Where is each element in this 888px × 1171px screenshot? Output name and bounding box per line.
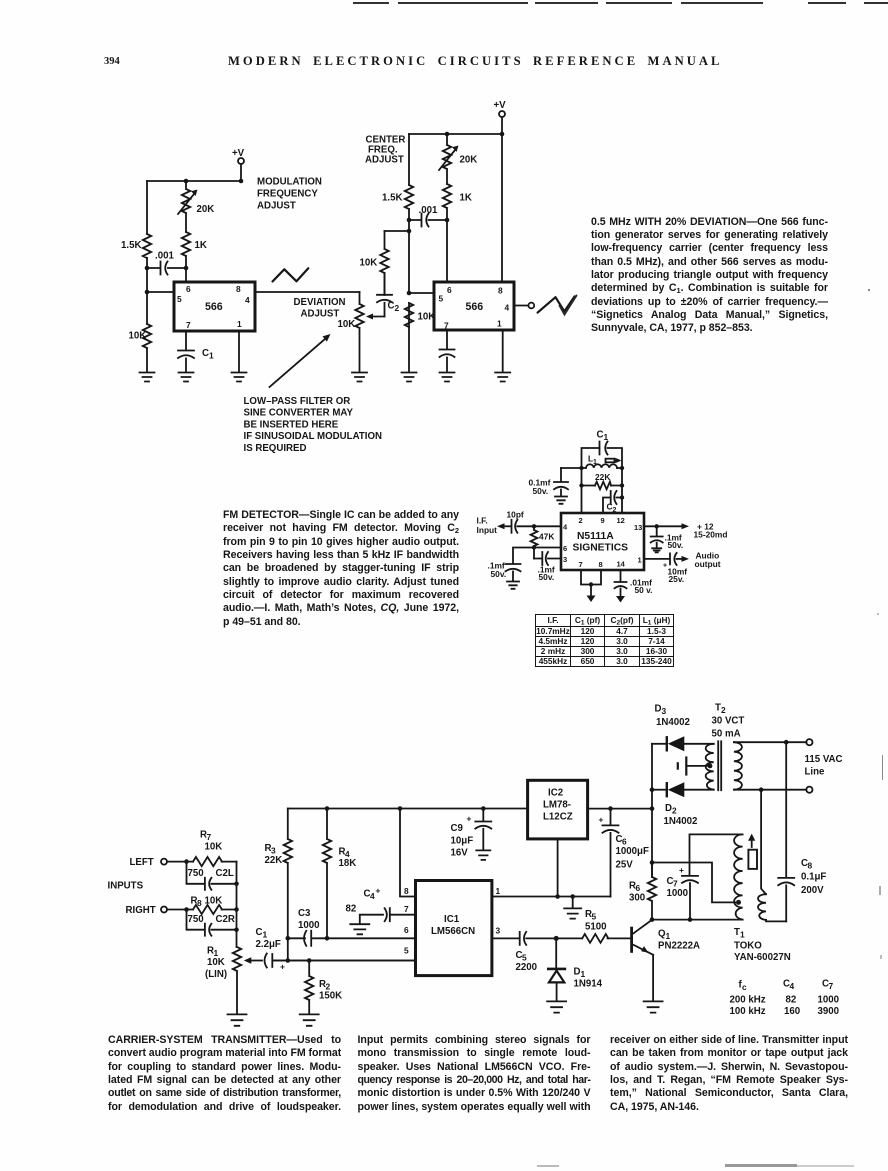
svg-text:5: 5 bbox=[439, 294, 444, 304]
svg-text:7: 7 bbox=[186, 320, 191, 330]
svg-text:115 VAC: 115 VAC bbox=[805, 754, 843, 765]
resistor 10K (modulator feed) bbox=[360, 231, 389, 295]
node 10K feed bbox=[407, 229, 412, 234]
svg-text:4: 4 bbox=[505, 303, 510, 313]
ground (common) bbox=[564, 897, 581, 919]
resistor 10K lower left bbox=[129, 324, 152, 348]
svg-text:50 mA: 50 mA bbox=[712, 729, 741, 740]
wire summing bus bbox=[236, 862, 238, 947]
svg-text:50 v.: 50 v. bbox=[635, 585, 653, 595]
capacitor pin 7 (right 566) bbox=[440, 330, 455, 371]
wire tap run to T1 bbox=[652, 863, 739, 903]
svg-text:1: 1 bbox=[209, 351, 214, 361]
ground (C1) bbox=[179, 373, 194, 382]
caption col 3 bbox=[610, 1034, 848, 1114]
label center freq adjust bbox=[365, 135, 405, 166]
svg-text:1N4002: 1N4002 bbox=[656, 717, 690, 728]
svg-text:7: 7 bbox=[829, 981, 834, 991]
wiper arrow R1 bbox=[244, 957, 262, 963]
wire pin 8 drop bbox=[501, 134, 503, 282]
svg-text:18K: 18K bbox=[339, 858, 357, 869]
node rail pin8 bbox=[398, 806, 403, 811]
node .001 left bbox=[407, 218, 412, 223]
svg-text:L12CZ: L12CZ bbox=[543, 812, 573, 823]
label fc table bbox=[730, 979, 840, 1018]
svg-text:50v.: 50v. bbox=[539, 572, 555, 582]
component value table for FM detector bbox=[535, 614, 674, 668]
+V supply terminal (right 566) bbox=[494, 100, 507, 134]
node pin5 tie bbox=[145, 290, 150, 295]
ground (D1) bbox=[547, 1001, 566, 1012]
diode D3 1N4002 bbox=[652, 704, 714, 752]
label T2 30 VCT 50 mA bbox=[712, 703, 745, 740]
ground (R2) bbox=[300, 1014, 319, 1025]
svg-text:0.1μF: 0.1μF bbox=[801, 872, 826, 883]
resistor R2 150K bbox=[305, 961, 342, 1014]
ground arrow (pins 7-8) bbox=[587, 585, 596, 603]
wire right input bbox=[167, 909, 193, 911]
svg-text:6: 6 bbox=[447, 285, 452, 295]
label 115 VAC Line bbox=[805, 754, 843, 778]
wire pin 4 output bbox=[255, 291, 360, 293]
+12 supply arrow bbox=[644, 522, 727, 540]
IF input arrow bbox=[477, 516, 512, 536]
node ground tie bbox=[570, 894, 575, 899]
caption col 2 bbox=[358, 1034, 591, 1114]
capacitor C3 1000 bbox=[288, 908, 416, 946]
capacitor .001 (left 566) bbox=[147, 251, 186, 275]
node left input bbox=[184, 859, 189, 864]
ground (C4) bbox=[350, 924, 369, 934]
page number bbox=[104, 56, 120, 67]
node top rail at 20K bbox=[445, 132, 450, 137]
resistor 10K (right 566) bbox=[405, 303, 435, 327]
resistor R8 10K bbox=[191, 896, 237, 915]
svg-text:200 kHz: 200 kHz bbox=[730, 995, 766, 1006]
svg-text:47K: 47K bbox=[539, 532, 554, 542]
transistor Q1 PN2222A bbox=[632, 920, 700, 1001]
node IC2 rail at riser bbox=[650, 806, 655, 811]
capacitor .1mf input bypass bbox=[488, 548, 535, 582]
ground (right branch) bbox=[402, 373, 417, 382]
node IC2 common bbox=[555, 894, 560, 899]
wire pin 1 right down bbox=[502, 330, 504, 371]
ground (+12 bypass) bbox=[652, 548, 661, 552]
node pins 7-8 bbox=[589, 582, 593, 586]
svg-text:1: 1 bbox=[496, 886, 501, 896]
svg-text:+: + bbox=[467, 814, 472, 824]
resistor R6 300 bbox=[629, 863, 656, 920]
node 47K bottom bbox=[532, 545, 536, 549]
svg-text:D: D bbox=[665, 803, 672, 814]
svg-text:DEVIATION: DEVIATION bbox=[294, 297, 346, 308]
wire left branch right 566 bbox=[408, 134, 410, 371]
svg-text:1: 1 bbox=[604, 432, 609, 442]
svg-text:10K: 10K bbox=[129, 331, 147, 342]
svg-text:3: 3 bbox=[271, 846, 276, 856]
resistor 47K bbox=[531, 526, 555, 558]
capacitor C2 (coupling) bbox=[377, 273, 400, 317]
svg-text:.001: .001 bbox=[419, 205, 438, 216]
resistor R5 5100 bbox=[556, 909, 630, 943]
svg-text:10K: 10K bbox=[360, 258, 378, 269]
svg-text:1: 1 bbox=[740, 930, 745, 940]
svg-text:.001: .001 bbox=[155, 251, 174, 262]
capacitor 0.1mf 50v (tank bypass) bbox=[529, 468, 569, 496]
ground (pin 7 right) bbox=[440, 373, 455, 382]
svg-text:30 VCT: 30 VCT bbox=[712, 716, 745, 727]
wire pin 1 down bbox=[238, 331, 240, 372]
label modulation frequency adjust bbox=[257, 177, 322, 212]
svg-text:IC1: IC1 bbox=[444, 914, 460, 925]
wire left input bbox=[167, 861, 193, 863]
IC N5111A Signetics bbox=[561, 513, 644, 570]
node T1 secondary tie bbox=[759, 787, 764, 792]
svg-text:1: 1 bbox=[237, 319, 242, 329]
svg-text:22K: 22K bbox=[595, 472, 610, 482]
resistor R4 18K bbox=[323, 809, 356, 939]
svg-text:LM78-: LM78- bbox=[543, 800, 571, 811]
ground (Q1 emitter) bbox=[644, 1001, 663, 1012]
node pin5 tie right bbox=[407, 291, 412, 296]
resistor 1.5K (right 566) bbox=[382, 185, 413, 209]
previous page bleed marks top bbox=[353, 2, 389, 4]
svg-text:10μF: 10μF bbox=[451, 836, 474, 847]
svg-text:SINE CONVERTER MAY: SINE CONVERTER MAY bbox=[244, 408, 354, 419]
svg-text:25V: 25V bbox=[616, 860, 634, 871]
svg-text:2: 2 bbox=[579, 516, 583, 525]
node collector bbox=[650, 917, 655, 922]
node rail C9 bbox=[481, 806, 486, 811]
wire emitter bus to T1 bbox=[652, 919, 743, 921]
wire left branch bbox=[146, 181, 148, 372]
svg-text:LOW–PASS FILTER OR: LOW–PASS FILTER OR bbox=[244, 396, 351, 407]
svg-text:150K: 150K bbox=[319, 991, 342, 1002]
resistor R7 10K bbox=[193, 830, 237, 867]
svg-text:6: 6 bbox=[404, 925, 409, 935]
node R3 at C3 wire bbox=[286, 936, 291, 941]
svg-text:3: 3 bbox=[662, 706, 667, 716]
caption: 0.5 MHz with 20% deviation bbox=[591, 216, 828, 336]
L1 tuning slug arrow bbox=[606, 458, 622, 463]
op-amp 566 IC (left) bbox=[174, 282, 255, 331]
wire IC2 ground stub bbox=[557, 839, 559, 897]
output terminal right 566 bbox=[514, 303, 534, 309]
terminal 115VAC top bbox=[806, 739, 812, 745]
node C5-R5-D1 bbox=[554, 936, 559, 941]
node cap right bbox=[184, 266, 189, 271]
diode D2 1N4002 bbox=[652, 782, 714, 827]
node T1 primary tap bbox=[736, 900, 741, 905]
svg-text:1: 1 bbox=[638, 556, 642, 565]
node R8 right bbox=[234, 907, 239, 912]
transformer T2 secondary winding bbox=[734, 742, 742, 790]
svg-text:2: 2 bbox=[721, 705, 726, 715]
svg-text:5: 5 bbox=[177, 294, 182, 304]
ground (R1) bbox=[228, 1014, 247, 1025]
tank loop wires bbox=[582, 448, 623, 513]
svg-text:+V: +V bbox=[494, 100, 507, 111]
svg-text:1N4002: 1N4002 bbox=[664, 816, 698, 827]
svg-text:22K: 22K bbox=[265, 855, 283, 866]
svg-text:50v.: 50v. bbox=[491, 569, 507, 579]
node R6 top bbox=[650, 860, 655, 865]
label audio output bbox=[695, 551, 721, 570]
svg-text:7: 7 bbox=[579, 560, 583, 569]
capacitor C8 0.1uF 200V bbox=[778, 742, 826, 921]
transformer T2 core bbox=[718, 741, 721, 790]
capacitor .1mf 50v (+12 bypass) bbox=[651, 526, 683, 550]
svg-text:PN2222A: PN2222A bbox=[658, 941, 700, 952]
svg-text:D: D bbox=[574, 967, 581, 978]
wire 115VAC top bbox=[734, 741, 807, 743]
svg-text:LM566CN: LM566CN bbox=[431, 926, 475, 937]
svg-text:7: 7 bbox=[444, 321, 449, 331]
svg-text:10K: 10K bbox=[338, 319, 356, 330]
resistor 1K bbox=[182, 232, 207, 282]
label deviation adjust bbox=[294, 297, 346, 320]
node D2 tap bbox=[650, 787, 655, 792]
node 47K top bbox=[532, 524, 536, 528]
svg-text:+: + bbox=[679, 865, 684, 875]
svg-text:8: 8 bbox=[498, 286, 503, 296]
ground arrow (pin 14) bbox=[616, 596, 625, 603]
svg-text:82: 82 bbox=[786, 995, 797, 1006]
resistor R3 22K bbox=[265, 809, 293, 961]
caption: carrier-system transmitter col 1 bbox=[108, 1034, 341, 1114]
svg-text:50v.: 50v. bbox=[533, 486, 549, 496]
svg-text:2: 2 bbox=[395, 303, 400, 313]
svg-text:12: 12 bbox=[617, 516, 625, 525]
op-amp 566 IC (right) bbox=[434, 282, 514, 330]
node C8 top bbox=[784, 740, 789, 745]
node R2 top tie bbox=[307, 958, 312, 963]
svg-text:5: 5 bbox=[522, 953, 527, 963]
svg-text:6: 6 bbox=[186, 284, 191, 294]
transformer T1 primary winding bbox=[734, 834, 743, 919]
svg-text:1.5K: 1.5K bbox=[121, 240, 141, 251]
svg-text:C: C bbox=[597, 430, 604, 441]
diode D1 1N914 bbox=[548, 938, 602, 1001]
label low-pass filter note bbox=[244, 396, 383, 454]
svg-text:5: 5 bbox=[592, 912, 597, 922]
wire 10K feed to node bbox=[385, 230, 410, 232]
svg-text:16V: 16V bbox=[451, 848, 469, 859]
transformer T1 secondary winding bbox=[758, 790, 786, 922]
svg-text:1: 1 bbox=[581, 969, 586, 979]
svg-text:100 kHz: 100 kHz bbox=[730, 1006, 766, 1017]
inductor L1 bbox=[561, 454, 622, 469]
svg-text:ADJUST: ADJUST bbox=[301, 309, 340, 320]
capacitor .1mf to pin 3 bbox=[534, 552, 561, 582]
svg-text:YAN-60027N: YAN-60027N bbox=[734, 952, 791, 963]
svg-text:1.5K: 1.5K bbox=[382, 193, 402, 204]
svg-text:566: 566 bbox=[205, 301, 223, 313]
capacitor .01mf 50v (pin 14) bbox=[615, 570, 653, 596]
svg-text:2.2μF: 2.2μF bbox=[256, 939, 281, 950]
svg-text:D: D bbox=[655, 704, 662, 715]
svg-text:4: 4 bbox=[563, 523, 568, 532]
svg-text:8: 8 bbox=[197, 898, 202, 908]
potentiometer R1 10K LIN bbox=[205, 946, 241, 1014]
node C2L right bbox=[234, 882, 239, 887]
node junction top rail bbox=[184, 179, 189, 184]
svg-text:25v.: 25v. bbox=[669, 574, 685, 584]
wiper arrow from C2 bbox=[366, 314, 385, 320]
svg-text:1: 1 bbox=[263, 930, 268, 940]
svg-text:1N914: 1N914 bbox=[574, 979, 603, 990]
wire main riser bbox=[651, 744, 653, 877]
svg-text:10pf: 10pf bbox=[507, 510, 524, 520]
wire pin 5 stub right bbox=[409, 292, 434, 294]
svg-text:1000: 1000 bbox=[818, 995, 840, 1006]
svg-text:ADJUST: ADJUST bbox=[365, 155, 404, 166]
triangle wave symbol 2 bbox=[538, 296, 575, 312]
svg-text:BE INSERTED HERE: BE INSERTED HERE bbox=[244, 419, 339, 430]
T1 tuning slug bbox=[748, 834, 757, 869]
capacitor C1 (left 566 pin 7) bbox=[178, 331, 214, 372]
svg-text:+: + bbox=[376, 886, 381, 896]
svg-text:1000: 1000 bbox=[298, 920, 320, 931]
triangle wave symbol 1 bbox=[273, 268, 309, 281]
svg-text:10K: 10K bbox=[207, 957, 225, 968]
capacitor C5 2200 (pin 3) bbox=[492, 932, 556, 973]
capacitor C7 1000 bbox=[667, 865, 699, 920]
capacitor C4 82 (pin 7) bbox=[346, 886, 416, 924]
node R4 at C3 wire bbox=[325, 936, 330, 941]
svg-text:10K: 10K bbox=[205, 842, 223, 853]
resistor 1.5K (left 566) bbox=[121, 234, 151, 258]
svg-text:1: 1 bbox=[497, 319, 502, 329]
svg-text:15-20md: 15-20md bbox=[694, 530, 728, 540]
svg-text:14: 14 bbox=[617, 560, 626, 569]
svg-text:20K: 20K bbox=[197, 204, 215, 215]
wire pin 1 to rail bbox=[492, 896, 611, 898]
svg-text:(LIN): (LIN) bbox=[205, 969, 227, 980]
potentiometer 20K center freq bbox=[439, 134, 477, 184]
svg-text:+: + bbox=[663, 563, 667, 570]
transformer T2 primary winding bbox=[706, 744, 714, 790]
svg-text:FREQUENCY: FREQUENCY bbox=[257, 189, 318, 200]
svg-text:1K: 1K bbox=[460, 193, 472, 204]
svg-text:7: 7 bbox=[207, 832, 212, 842]
resistor 1K (right 566) bbox=[443, 184, 472, 282]
svg-text:160: 160 bbox=[784, 1006, 800, 1017]
node C7 bottom bbox=[688, 917, 693, 922]
node right input bbox=[184, 907, 189, 912]
svg-text:N5111A: N5111A bbox=[577, 531, 614, 542]
svg-text:output: output bbox=[695, 559, 721, 569]
svg-text:9: 9 bbox=[601, 516, 605, 525]
svg-text:1K: 1K bbox=[195, 240, 207, 251]
capacitor C9 10uF 16V bbox=[451, 809, 492, 859]
svg-text:I.F.: I.F. bbox=[477, 516, 488, 526]
node C2 right bbox=[620, 495, 624, 499]
svg-text:566: 566 bbox=[466, 301, 484, 313]
resistor 22K bbox=[582, 472, 623, 489]
svg-text:5100: 5100 bbox=[585, 922, 607, 933]
svg-text:1000: 1000 bbox=[667, 888, 689, 899]
wire IC2 input rail bbox=[588, 808, 652, 810]
wire pin 6 stub bbox=[534, 547, 561, 549]
capacitor C2 (detector) bbox=[603, 491, 622, 514]
svg-text:C: C bbox=[202, 348, 209, 359]
svg-text:MODULATION: MODULATION bbox=[257, 177, 322, 188]
ground (pin 1) bbox=[232, 373, 247, 382]
svg-text:INPUTS: INPUTS bbox=[108, 881, 144, 892]
svg-text:+V: +V bbox=[232, 148, 245, 159]
wire pin 8 drop IC1 bbox=[400, 809, 416, 897]
label T1 TOKO YAN-60027N bbox=[734, 927, 791, 963]
bottom page bleed marks bbox=[725, 1164, 797, 1167]
node C6 bbox=[608, 806, 613, 811]
potentiometer 20K modulation frequency adjust bbox=[178, 181, 214, 232]
svg-text:2: 2 bbox=[672, 806, 677, 816]
potentiometer 10K deviation adjust bbox=[338, 292, 364, 371]
wire pin 5 stub IC1 bbox=[273, 960, 416, 962]
svg-text:4: 4 bbox=[790, 981, 795, 991]
capacitor .001 (right 566) bbox=[409, 205, 447, 227]
svg-text:+: + bbox=[599, 815, 604, 825]
+V supply terminal (left 566) bbox=[232, 148, 245, 181]
svg-text:+: + bbox=[280, 962, 285, 972]
svg-text:C3: C3 bbox=[298, 908, 311, 919]
wire +V rail top bbox=[288, 808, 528, 810]
svg-text:8: 8 bbox=[236, 284, 241, 294]
ground (input bypass) bbox=[507, 582, 519, 589]
svg-text:SIGNETICS: SIGNETICS bbox=[573, 543, 629, 554]
ground (deviation pot) bbox=[352, 373, 367, 382]
svg-text:3900: 3900 bbox=[818, 1006, 840, 1017]
handwritten checkmark bbox=[560, 296, 577, 315]
svg-text:750: 750 bbox=[188, 914, 204, 925]
node +12 bypass bbox=[655, 524, 659, 528]
ground (left branch) bbox=[140, 373, 155, 382]
svg-text:300: 300 bbox=[629, 893, 645, 904]
node L1 left bbox=[579, 466, 583, 470]
node L1 right bbox=[620, 466, 624, 470]
T2 center tap ground bbox=[678, 758, 713, 775]
svg-text:IF SINUSOIDAL MODULATION: IF SINUSOIDAL MODULATION bbox=[244, 431, 383, 442]
voltage regulator IC2 LM78-L12CZ bbox=[528, 780, 588, 839]
svg-text:3: 3 bbox=[563, 555, 567, 564]
terminal left input bbox=[161, 859, 167, 865]
svg-text:82: 82 bbox=[346, 904, 357, 915]
node rail R4 bbox=[325, 806, 330, 811]
svg-text:10K: 10K bbox=[205, 896, 223, 907]
wire top rail right 566 bbox=[409, 133, 502, 135]
node .001 right bbox=[445, 218, 450, 223]
svg-text:3: 3 bbox=[496, 926, 501, 936]
wire 115VAC bottom bbox=[734, 789, 806, 791]
svg-text:8: 8 bbox=[599, 560, 603, 569]
svg-text:1000μF: 1000μF bbox=[616, 846, 649, 857]
svg-text:C: C bbox=[388, 301, 395, 312]
svg-text:13: 13 bbox=[634, 523, 642, 532]
ground (C9) bbox=[476, 850, 490, 860]
running head title bbox=[228, 54, 723, 69]
svg-text:1: 1 bbox=[666, 931, 671, 941]
capacitor C6 1000uF 25V bbox=[599, 809, 649, 897]
node 22K right bbox=[620, 483, 624, 487]
capacitor C2R 750 bbox=[187, 910, 237, 936]
op-amp IC1 LM566CN bbox=[416, 881, 492, 976]
svg-text:4: 4 bbox=[370, 891, 375, 901]
svg-text:1: 1 bbox=[593, 459, 597, 466]
svg-text:C: C bbox=[256, 927, 263, 938]
svg-text:C2L: C2L bbox=[216, 868, 234, 879]
svg-text:7: 7 bbox=[673, 879, 678, 889]
